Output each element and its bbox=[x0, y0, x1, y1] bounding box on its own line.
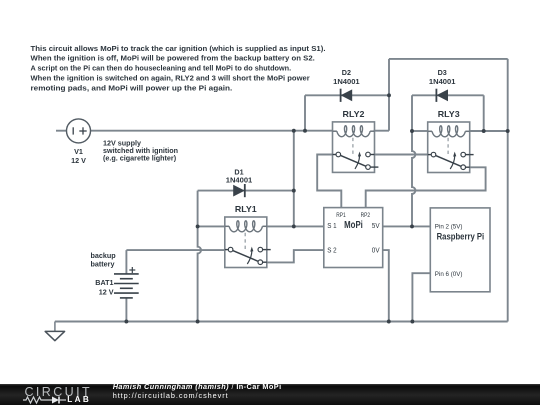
wire: vertical D2 anode to 12V line bbox=[304, 95, 306, 130]
svg-text:1N4001: 1N4001 bbox=[226, 175, 253, 184]
wire: 5V line MoPi to Raspberry Pi bbox=[383, 225, 431, 227]
annotation: backup battery bbox=[91, 251, 117, 268]
CircuitLab logo bbox=[25, 385, 93, 399]
svg-text:BAT1: BAT1 bbox=[95, 278, 113, 287]
wire: vertical D3 cathode-bar side bbox=[483, 95, 485, 131]
wire: RLY1 coil left stub bbox=[198, 225, 225, 227]
diode D2 bbox=[333, 68, 360, 102]
footer black bar bbox=[0, 384, 540, 405]
wire: D1 horizontal bbox=[198, 190, 294, 192]
svg-text:When the ignition is switched: When the ignition is switched on again, … bbox=[31, 74, 310, 83]
wire: vertical D3 anode down to 5V line (with hops) bbox=[412, 95, 415, 226]
annotation: 12V supply bbox=[103, 139, 178, 163]
voltage source V1 bbox=[67, 119, 91, 165]
wire: D3 horizontal bbox=[412, 94, 484, 96]
svg-text:12 V: 12 V bbox=[71, 156, 86, 165]
svg-text:V1: V1 bbox=[74, 147, 83, 156]
relay RLY2 bbox=[333, 110, 379, 172]
svg-text:S 1: S 1 bbox=[327, 223, 336, 230]
wire: vertical from 12V line down to S1 line bbox=[293, 131, 295, 227]
wire: RLY3 coil right to right vertical bbox=[469, 130, 508, 132]
paragraph description text bbox=[31, 44, 326, 93]
wire: MoPi 0V down to ground rail bbox=[383, 250, 389, 321]
svg-text:RLY3: RLY3 bbox=[438, 110, 460, 119]
wire: RLY3 NC to MoPi RP2 bbox=[366, 167, 486, 207]
wire: bottom ground rail bbox=[55, 321, 508, 323]
svg-text:remoting pads, and MoPi will p: remoting pads, and MoPi will power up th… bbox=[31, 83, 233, 92]
wire: battery minus to ground rail bbox=[125, 298, 127, 322]
svg-text:Raspberry Pi: Raspberry Pi bbox=[437, 232, 485, 243]
svg-text:When the ignition is off, MoPi: When the ignition is off, MoPi will be p… bbox=[31, 54, 315, 63]
svg-text:1N4001: 1N4001 bbox=[333, 77, 360, 86]
svg-text:This circuit allows MoPi to tr: This circuit allows MoPi to track the ca… bbox=[31, 44, 326, 53]
svg-text:Pin 6 (0V): Pin 6 (0V) bbox=[435, 271, 463, 278]
wire: right vertical to bottom bbox=[507, 59, 509, 322]
svg-text:0V: 0V bbox=[372, 247, 380, 254]
svg-text:1N4001: 1N4001 bbox=[429, 77, 456, 86]
Raspberry Pi box bbox=[430, 208, 490, 292]
svg-text:A script on the Pi can then do: A script on the Pi can then do houseclea… bbox=[31, 64, 292, 73]
wire: 12V supply line from V1 to RLY2 coil bbox=[56, 130, 333, 132]
svg-text:S 2: S 2 bbox=[327, 247, 336, 254]
wire: Raspberry Pi Pin6 down to ground rail bbox=[412, 273, 430, 321]
wire: RLY2 NO to RLY3 common bbox=[374, 154, 428, 156]
wire: RLY2 common to MoPi RP1 bbox=[317, 155, 341, 208]
svg-text:12 V: 12 V bbox=[99, 288, 114, 297]
wire: D2 horizontal bbox=[305, 94, 389, 96]
wire: vertical from top wire to RLY2 coil right bbox=[374, 59, 389, 131]
svg-text:Pin 2 (5V): Pin 2 (5V) bbox=[435, 223, 463, 230]
svg-text:5V: 5V bbox=[372, 223, 380, 230]
wire: top horizontal bbox=[389, 58, 508, 60]
relay RLY3 bbox=[428, 110, 474, 173]
svg-text:RP1: RP1 bbox=[336, 213, 346, 219]
MoPi box U1 bbox=[324, 208, 383, 268]
footer title text bbox=[113, 382, 282, 391]
svg-text:RP2: RP2 bbox=[361, 213, 371, 219]
wire: RLY1 coil left vertical (D1 anode to ground, with hop) bbox=[198, 191, 201, 322]
svg-text:D3: D3 bbox=[438, 68, 447, 77]
battery BAT1 bbox=[95, 267, 138, 298]
svg-text:battery: battery bbox=[91, 259, 115, 268]
wire: battery plus to RLY1 common bbox=[126, 250, 224, 274]
svg-text:RLY1: RLY1 bbox=[235, 205, 257, 214]
wire: RLY3 coil left stub bbox=[412, 130, 428, 132]
diode D1 bbox=[226, 167, 253, 197]
svg-text:(e.g. cigarette lighter): (e.g. cigarette lighter) bbox=[103, 154, 177, 163]
svg-text:D2: D2 bbox=[342, 68, 351, 77]
wire: S1 line RLY1 coil to MoPi bbox=[267, 225, 324, 227]
diode D3 bbox=[429, 68, 456, 102]
relay RLY1 bbox=[225, 205, 271, 268]
wire: RLY1 NC to MoPi S2 bbox=[267, 250, 324, 262]
svg-text:RLY2: RLY2 bbox=[343, 110, 365, 119]
ground symbol bbox=[45, 322, 64, 341]
svg-text:MoPi: MoPi bbox=[344, 220, 363, 231]
